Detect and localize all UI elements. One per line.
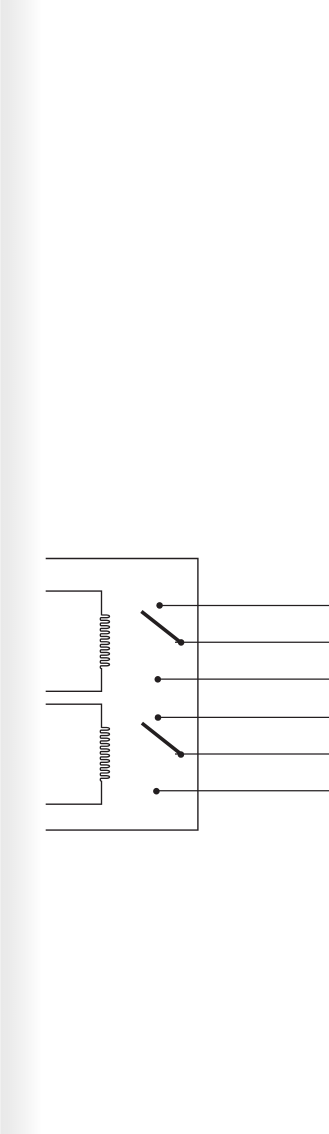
wire: relay 1 common terminal to right edge xyxy=(175,641,329,643)
contact dot: relay 1 normally-open terminal xyxy=(155,676,162,683)
coil L2 top lead wire xyxy=(46,704,102,728)
contact dot: relay 2 common terminal xyxy=(178,751,185,758)
contact dot: relay 2 normally-closed terminal xyxy=(155,714,162,721)
contact dot: relay 2 normally-open terminal xyxy=(153,788,160,795)
relay enclosure box K1 (open left side, clipped at page edge) xyxy=(46,559,198,831)
wire: relay 1 NC terminal to right edge xyxy=(160,605,329,607)
contact dot: relay 1 common terminal xyxy=(178,639,185,646)
coil L1 top lead wire xyxy=(46,591,102,615)
wire: relay 2 NC terminal to right edge xyxy=(158,716,329,718)
wire: relay 1 NO terminal to right edge xyxy=(158,678,329,680)
wire: relay 2 common terminal to right edge xyxy=(175,753,329,755)
coil L2 bottom lead wire xyxy=(46,781,102,804)
coil L2 (relay 2 winding) xyxy=(100,728,109,782)
coil L1 (relay 1 winding) xyxy=(100,615,109,669)
switch blade: relay 2 movable contact xyxy=(142,723,181,754)
switch blade: relay 1 movable contact xyxy=(141,611,180,642)
wire: relay 2 NO terminal to right edge xyxy=(156,790,329,792)
coil L1 bottom lead wire xyxy=(46,668,102,691)
contact dot: relay 1 normally-closed terminal xyxy=(156,602,163,609)
